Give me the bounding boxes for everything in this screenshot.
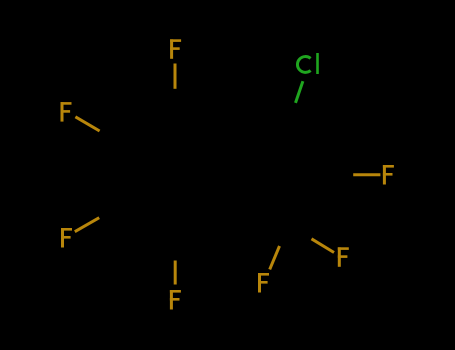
- F7 label (bottom): [170, 290, 181, 310]
- wire C2-F2 stub (right, horizontal): [353, 173, 380, 176]
- F4 label (top): [170, 39, 181, 59]
- wire C3-F3b stub (gem-difluoro right): [312, 239, 335, 253]
- wire C1-Cl stub: [296, 81, 303, 103]
- wire C5-F5 stub (upper left): [75, 117, 99, 131]
- wire C7-F7 stub (bottom): [174, 261, 177, 285]
- Cl label : C arc: [297, 57, 310, 73]
- Cl label : l bar: [316, 53, 319, 74]
- wire C6-F6 stub (lower left): [75, 218, 99, 232]
- F6 label (lower left): [61, 228, 72, 248]
- wire C4-F4 stub (top): [174, 64, 177, 89]
- wire C3-F3a stub (gem-difluoro left): [270, 246, 280, 269]
- F5 label (upper left): [61, 102, 72, 122]
- F3b label: [338, 247, 349, 266]
- F3a label: [258, 273, 269, 293]
- F2 label (right): [383, 165, 394, 185]
